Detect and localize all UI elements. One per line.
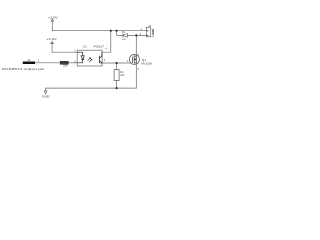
svg-text:PCF8574 output pin: PCF8574 output pin (2, 67, 45, 71)
node A junction rail/U1 pin4 (110, 30, 112, 32)
wire U1 pin3 to gate (102, 62, 131, 64)
connector J1 (PCF8574 output pin) (23, 58, 40, 64)
svg-text:GND: GND (42, 95, 50, 99)
svg-text:Load: Load (151, 29, 155, 37)
op-amp U1 PC817 optocoupler (74, 44, 107, 66)
resistor R2 (114, 70, 125, 81)
wire R2 to ground bus (116, 81, 118, 89)
svg-text:J1: J1 (27, 58, 30, 62)
transistor Q1 MOSFET (127, 53, 152, 72)
svg-text:D1: D1 (122, 30, 126, 34)
resistor R1 (60, 61, 68, 67)
wire R1 to U1 pin2 (68, 62, 77, 64)
svg-text:+3.3V: +3.3V (46, 37, 57, 41)
phototransistor inside U1 (99, 52, 102, 63)
ground (44, 88, 47, 94)
wire rail drop to diode row (117, 31, 123, 36)
wire drain vertical (135, 35, 137, 56)
svg-text:PC817: PC817 (94, 44, 105, 48)
wire +12V rail (52, 30, 146, 32)
svg-text:IRL510A: IRL510A (142, 62, 153, 66)
wire U1 pin4 up to rail (102, 31, 111, 53)
node C junction diode row/drain (135, 34, 137, 36)
node D junction gate/R2 (116, 62, 118, 64)
node B junction rail/diode drop (116, 30, 118, 32)
svg-text:+12V: +12V (48, 16, 58, 20)
power +12V (51, 19, 54, 31)
diode D1 (122, 30, 128, 41)
wire source to ground bus (135, 63, 137, 88)
svg-text:J2: J2 (148, 24, 151, 28)
wire R2 drop (116, 63, 118, 70)
svg-text:Q1: Q1 (142, 58, 146, 62)
wire J1 to R1 (35, 62, 60, 64)
node E junction ground bus/R2 (116, 87, 118, 89)
coupling arrows inside U1 (88, 58, 93, 63)
svg-text:1N4148: 1N4148 (122, 39, 126, 41)
power +3.3V (51, 41, 54, 52)
wire ground bus (46, 87, 137, 89)
svg-text:U1: U1 (83, 44, 87, 48)
LED inside U1 (77, 52, 84, 63)
wire diode to J2 pin2 (128, 34, 147, 36)
svg-text:330: 330 (63, 65, 68, 68)
connector J2 (Load) (140, 24, 155, 37)
wire +3.3V to U1 pin1 (52, 51, 77, 53)
